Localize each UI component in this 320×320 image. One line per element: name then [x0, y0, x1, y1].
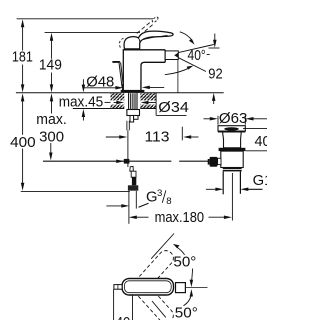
- wire max.45 leader dash: [105, 101, 111, 103]
- wire 113 right extension line: [181, 127, 183, 141]
- spray lower ray: [178, 58, 206, 72]
- angle 40 upper arc arrow: [180, 32, 193, 42]
- dimension 92: [212, 34, 217, 105]
- aerator: [165, 51, 178, 60]
- top view lever inner outline: [124, 281, 171, 293]
- wire hose pair below nut: [126, 121, 128, 131]
- pop-up waste plug lens: [224, 127, 239, 130]
- svg-text:92: 92: [208, 67, 223, 83]
- svg-text:8: 8: [166, 196, 171, 207]
- svg-text:300: 300: [39, 129, 64, 145]
- dimension max.180: [129, 215, 232, 219]
- wire deck top line right segment: [144, 92, 223, 94]
- pop-up rod junction block: [124, 159, 130, 164]
- countertop hatch left block: [111, 93, 125, 108]
- svg-text:Ø34: Ø34: [158, 100, 189, 116]
- pop-up rod horizontal right segment: [179, 160, 208, 162]
- wire dim-181 extension line top: [17, 18, 153, 20]
- spray upper ray: [178, 45, 213, 53]
- hose G3/8 tip: [130, 166, 134, 171]
- aerator wedge: [174, 53, 178, 58]
- wire 92 top reference tick: [209, 47, 220, 49]
- svg-text:400: 400: [10, 135, 35, 151]
- dimension G1 1/4 arrows: [206, 188, 263, 192]
- wire dim-149 extension line: [45, 31, 140, 33]
- wire deck top line left segment: [16, 92, 121, 94]
- wire centerline right: [185, 287, 207, 289]
- svg-text:3: 3: [157, 188, 162, 199]
- lever handle (dome + arm): [124, 31, 173, 49]
- dimension max.300 vertical below deck: [49, 93, 53, 160]
- top view lever end cap: [176, 283, 186, 293]
- mounting nut: [127, 110, 140, 116]
- wire ext line hose right: [135, 191, 137, 209]
- hose nipple B: [134, 116, 138, 120]
- svg-text:40°: 40°: [188, 48, 206, 64]
- dimension 400 vertical below deck: [21, 93, 25, 190]
- label Ø34 underline: [156, 114, 186, 116]
- svg-text:G1: G1: [253, 173, 267, 189]
- top view rear nub: [114, 285, 122, 290]
- wire bottom-view ext line right: [132, 296, 134, 320]
- dashed raised lever tip: [152, 16, 159, 23]
- countertop hatch right block: [140, 93, 156, 108]
- arc 50 lower with arrows: [184, 296, 192, 306]
- wire deck bottom line: [73, 108, 125, 110]
- lever root crease: [138, 38, 139, 44]
- hose G3/8 crimp: [132, 177, 136, 185]
- dashed raised lever line 2: [140, 23, 155, 35]
- wire hose single line down: [127, 130, 129, 167]
- svg-text:40: 40: [116, 315, 131, 320]
- svg-text:max.180: max.180: [155, 210, 205, 226]
- dimension Ø34 arrows: [114, 101, 157, 105]
- svg-text:50°: 50°: [175, 305, 198, 320]
- svg-text:149: 149: [39, 58, 62, 74]
- hose G3/8 end block: [128, 185, 138, 190]
- dimension Ø63: [204, 117, 268, 121]
- pop-up waste groove rings: [223, 168, 242, 170]
- svg-text:50°: 50°: [173, 255, 196, 271]
- wire Ø63 extension lines: [217, 116, 219, 125]
- svg-text:181: 181: [12, 50, 33, 66]
- pop-up rod horizontal left segment: [43, 160, 171, 162]
- pop-up waste rod: [231, 173, 233, 221]
- pop-up pull rod behind body: [113, 62, 123, 88]
- svg-text:Ø48: Ø48: [86, 74, 114, 90]
- svg-text:113: 113: [145, 129, 170, 145]
- pop-up waste lever knob: [210, 157, 218, 167]
- wire bottom-view ext line left: [113, 289, 115, 320]
- dimension max.45 arrows: [82, 79, 86, 120]
- pop-up waste knob ferrule: [208, 159, 210, 165]
- faucet body: [123, 50, 165, 91]
- faucet escutcheon base: [121, 90, 145, 93]
- hose pointer arrow: [106, 204, 129, 208]
- angle 40 lower arc arrow: [165, 67, 191, 74]
- svg-text:Ø63: Ø63: [219, 111, 248, 127]
- ray down 50: [152, 301, 166, 317]
- wire aerator outlet drop line: [177, 60, 179, 93]
- pop-up waste collar: [219, 148, 246, 151]
- mounting shank: [129, 93, 137, 110]
- dimension 149 vertical with arrows: [50, 33, 54, 93]
- dimension 40 right reference lines: [243, 128, 267, 130]
- svg-text:40: 40: [255, 134, 268, 150]
- pop-up waste neck: [223, 133, 242, 148]
- pop-up waste body: [221, 151, 243, 167]
- wire ext line hose left: [128, 191, 130, 224]
- wire Ø48 extension lines: [122, 84, 124, 92]
- wire hatch right edge vertical: [155, 93, 157, 116]
- dimension 181 vertical with arrows: [21, 19, 25, 92]
- dashed lever rotated down 50: [130, 277, 176, 320]
- svg-text:max.45: max.45: [59, 95, 103, 111]
- pop-up waste flange bottom bar: [218, 131, 245, 133]
- arc 50 upper with arrows: [176, 247, 184, 255]
- dashed lever rotated up 50: [130, 248, 176, 297]
- lever inner crease: [142, 35, 168, 40]
- pop-up waste tailpipe: [223, 171, 240, 194]
- hose nipple A: [130, 116, 134, 123]
- pop-up rod junction arrowhead: [116, 159, 124, 163]
- dimension 113: [106, 135, 199, 139]
- wire 400 bottom extension line: [21, 190, 130, 192]
- dashed raised lever line 1: [137, 21, 152, 34]
- top view lever body: [122, 279, 173, 296]
- dashed dome alternate outline: [120, 38, 124, 47]
- white clearance for dim arrows in hatch: [111, 100, 125, 104]
- svg-text:max.: max.: [36, 112, 67, 128]
- pop-up waste knob joint: [218, 158, 221, 164]
- ray up 50: [151, 234, 174, 259]
- dimension Ø48: [84, 86, 164, 90]
- pop-up waste flange: [218, 126, 245, 132]
- hose G3/8 neck: [131, 171, 136, 177]
